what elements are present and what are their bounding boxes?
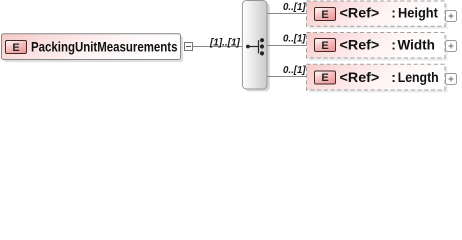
svg-text:E: E <box>321 72 328 84</box>
svg-text:E: E <box>321 9 328 21</box>
svg-text:<Ref>: <Ref> <box>340 37 380 53</box>
wire to Height <box>267 13 307 15</box>
svg-text:0..[1]: 0..[1] <box>283 65 306 76</box>
svg-text:0..[1]: 0..[1] <box>283 2 306 13</box>
svg-text:E: E <box>12 42 19 54</box>
svg-text:[1]..[1]: [1]..[1] <box>209 37 240 48</box>
svg-text:<Ref>: <Ref> <box>340 5 380 21</box>
sequence compositor <box>242 1 269 92</box>
sequence icon <box>246 38 264 55</box>
expand button <box>446 11 457 22</box>
element Ref : Length <box>307 64 457 92</box>
svg-text::: : <box>391 69 396 85</box>
element Ref : Height <box>307 1 457 29</box>
element Ref : Width <box>307 33 457 61</box>
E icon <box>315 8 336 21</box>
E icon <box>315 39 336 52</box>
collapse toggle <box>185 43 193 51</box>
E icon <box>6 41 27 54</box>
wire to Width <box>267 45 307 47</box>
svg-text:0..[1]: 0..[1] <box>283 33 306 44</box>
svg-text::: : <box>391 5 396 21</box>
svg-text:<Ref>: <Ref> <box>340 69 380 85</box>
svg-text:Width: Width <box>398 37 435 53</box>
svg-text:PackingUnitMeasurements: PackingUnitMeasurements <box>31 39 178 55</box>
expand button <box>446 41 457 52</box>
E icon <box>315 71 336 84</box>
svg-text:E: E <box>321 40 328 52</box>
svg-text:Height: Height <box>398 5 438 21</box>
element PackingUnitMeasurements <box>2 34 184 62</box>
svg-text:Length: Length <box>398 69 439 85</box>
wire parent to sequence <box>185 46 242 48</box>
svg-text::: : <box>391 37 396 53</box>
wire to Length <box>267 76 307 78</box>
expand button <box>446 74 457 85</box>
